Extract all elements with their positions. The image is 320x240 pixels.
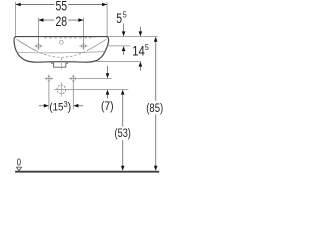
dimension 55: dimension line bbox=[16, 4, 55, 6]
dimension (53): line upper part bbox=[122, 95, 124, 127]
basin rim top line bbox=[15, 36, 107, 38]
svg-text:14: 14 bbox=[132, 43, 145, 59]
dimension 15.3: right arrow (outside pointing left) bbox=[78, 105, 83, 107]
overflow hole circle bbox=[59, 40, 63, 44]
dimension (85): line upper part bbox=[155, 42, 157, 101]
svg-text:55: 55 bbox=[56, 0, 68, 14]
dimension (53): line lower part bbox=[122, 140, 124, 166]
basin interior shelf line bbox=[16, 52, 104, 53]
basin bottom edge extension to right bbox=[96, 61, 141, 63]
svg-text:28: 28 bbox=[56, 13, 68, 29]
dimension (7): top arrow (down) bbox=[107, 66, 109, 74]
dimension 55: right extension line bbox=[106, 2, 108, 36]
basin inner bowl contour left (thin) bbox=[17, 39, 37, 50]
siphon horizontal centerline / ref line B (for 7 and 53) bbox=[54, 88, 128, 90]
wall bolt hole left (centermark) bbox=[45, 74, 53, 82]
dimension 5.5: lower ref line bbox=[107, 45, 130, 47]
siphon circle (dashed) bbox=[57, 85, 66, 94]
tap hole right (centermark) bbox=[79, 42, 87, 50]
bolt hole extension line left (for 15.3) bbox=[48, 83, 50, 110]
svg-text:(7): (7) bbox=[101, 101, 114, 113]
dimension 28: right extension line bbox=[83, 18, 85, 42]
floor line bbox=[15, 171, 159, 173]
dimension 28: right arrow bbox=[78, 18, 83, 22]
svg-text:5: 5 bbox=[145, 42, 149, 52]
bolt level ref line A (for 7) bbox=[78, 78, 112, 80]
wall bolt hole right (centermark) bbox=[69, 74, 77, 82]
dimension (53): top arrow (up, at siphon line) bbox=[121, 90, 125, 95]
bolt hole extension line right (for 15.3) bbox=[72, 83, 74, 110]
tap hole left (centermark) bbox=[34, 42, 42, 50]
dimension 55: right arrow bbox=[102, 3, 107, 7]
floor level triangle symbol bbox=[17, 167, 22, 171]
dimension 55: left arrow bbox=[16, 3, 21, 7]
rim extension line to right (ref for 5.5 / 14.5 / 85) bbox=[107, 36, 158, 38]
drain center line bbox=[60, 58, 62, 70]
dimension 14.5: bottom arrow (up) bbox=[139, 62, 143, 67]
drain fitting bbox=[52, 62, 68, 68]
siphon vertical centerline bbox=[60, 82, 62, 96]
basin inner bowl contour right (thin) bbox=[87, 39, 107, 50]
svg-text:(153): (153) bbox=[49, 99, 71, 113]
dimension (85): bottom arrow (down, at floor) bbox=[154, 166, 158, 171]
dimension 28: left extension line bbox=[37, 18, 39, 42]
dimension 15.3: left arrow (outside pointing right) bbox=[39, 105, 44, 107]
svg-text:5: 5 bbox=[123, 10, 127, 20]
svg-text:5: 5 bbox=[116, 10, 122, 26]
dimension (7): bottom arrow (up) bbox=[106, 90, 110, 95]
dimension 14.5: top arrow (down) bbox=[139, 27, 141, 32]
svg-text:(85): (85) bbox=[146, 103, 163, 115]
svg-text:(53): (53) bbox=[115, 128, 131, 140]
dimension 5.5: bottom arrow (up) bbox=[122, 46, 126, 51]
dimension 55: left extension line bbox=[15, 2, 17, 36]
hidden dashed line below rim bbox=[44, 37, 95, 39]
dimension 5.5: top arrow (down) bbox=[123, 24, 125, 32]
dimension 28: dimension line bbox=[38, 19, 54, 21]
dimension 28: left arrow bbox=[39, 18, 44, 22]
basin outer outline bbox=[14, 37, 109, 63]
dimension (53): bottom arrow (down, at floor) bbox=[121, 166, 125, 171]
dimension (85): line lower part bbox=[155, 114, 157, 166]
dimension (85): top arrow (up, at rim ext line) bbox=[154, 37, 158, 42]
basin inner bowl contour middle (dashed) bbox=[36, 51, 87, 58]
